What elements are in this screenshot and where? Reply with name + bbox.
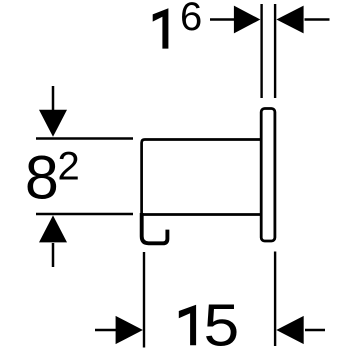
svg-text:8: 8 (25, 144, 59, 212)
svg-text:6: 6 (180, 0, 202, 39)
svg-text:2: 2 (58, 145, 80, 189)
svg-text:5: 5 (204, 293, 240, 357)
